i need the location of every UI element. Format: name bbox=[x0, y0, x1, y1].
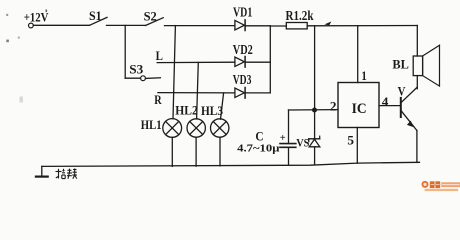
wire diode summing vertical node bbox=[269, 26, 271, 93]
junction arrow on rail bbox=[324, 22, 331, 26]
svg-text:S3: S3 bbox=[129, 63, 143, 77]
IC box IC bbox=[338, 83, 379, 128]
svg-text:+: + bbox=[280, 133, 286, 144]
lamp HL2 bbox=[187, 119, 205, 137]
wire capacitor C top vertical bbox=[288, 110, 290, 143]
wire VD3 cathode to node vertical bbox=[246, 92, 271, 94]
ground symbol chassis bbox=[36, 166, 48, 176]
svg-text:1: 1 bbox=[361, 69, 366, 83]
node junction dot pin2 bbox=[312, 108, 317, 113]
wire zener branch vertical from rail bbox=[314, 26, 316, 139]
capacitor C plates bbox=[280, 144, 296, 148]
transistor V emitter diagonal with arrow bbox=[401, 110, 417, 130]
svg-text:VS: VS bbox=[296, 135, 309, 149]
svg-text:+12V: +12V bbox=[24, 10, 49, 24]
wire lamp HL2 upper vertical bbox=[197, 62, 199, 119]
wire top rail S2 to VD1 bbox=[165, 25, 236, 27]
terminal +12V circle bbox=[29, 23, 34, 28]
wire capacitor C bottom vertical bbox=[288, 148, 290, 165]
wire IC pin2 horizontal bbox=[289, 109, 339, 111]
svg-text:2: 2 bbox=[330, 99, 337, 113]
wire S1 to S3 junction to S2 bbox=[107, 24, 146, 26]
svg-text:HL2: HL2 bbox=[175, 102, 198, 117]
svg-text:IC: IC bbox=[352, 101, 367, 117]
svg-text:R: R bbox=[154, 92, 162, 107]
node R wire row bbox=[158, 92, 235, 94]
svg-text:5: 5 bbox=[347, 134, 354, 148]
svg-text:VD2: VD2 bbox=[233, 42, 253, 57]
switch S3 pivot circle bbox=[141, 76, 146, 81]
svg-text:S2: S2 bbox=[144, 9, 157, 23]
wire lamp HL1 upper vertical bbox=[173, 26, 175, 119]
wire speaker top vertical from rail bbox=[416, 26, 418, 57]
diode VD2 bbox=[235, 57, 245, 68]
svg-text:HL1: HL1 bbox=[141, 117, 162, 132]
bottom rail wire bbox=[42, 162, 420, 166]
wire lamp HL1 lower vertical bbox=[171, 137, 173, 166]
wire IC pin4 to transistor base bbox=[379, 105, 401, 107]
wire IC pin1 vertical bbox=[357, 26, 359, 83]
speaker BL bbox=[413, 45, 439, 86]
svg-text:4: 4 bbox=[382, 95, 389, 109]
svg-text:V: V bbox=[398, 84, 406, 98]
lamp HL1 bbox=[163, 119, 182, 138]
wire VD1 cathode to node vertical bbox=[246, 25, 271, 27]
wire IC pin5 vertical bbox=[356, 128, 358, 164]
wire lamp HL3 lower vertical bbox=[219, 137, 221, 166]
diode VD3 bbox=[235, 88, 245, 99]
svg-text:L: L bbox=[156, 48, 164, 63]
wire lamp HL3 upper vertical bbox=[221, 93, 224, 119]
wire zener to bottom rail bbox=[314, 147, 316, 165]
svg-text:VD1: VD1 bbox=[233, 5, 252, 20]
svg-text:R1.2k: R1.2k bbox=[286, 8, 314, 23]
wire resistor R1 to speaker corner bbox=[307, 25, 417, 27]
stray scan specks bbox=[6, 10, 47, 103]
wire S3 stub bbox=[125, 77, 140, 79]
switch S1 blade bbox=[90, 17, 108, 25]
transistor V base bar bbox=[400, 98, 402, 117]
node L wire row bbox=[157, 61, 235, 63]
wire top rail from terminal to S1 bbox=[33, 24, 89, 26]
watermark logo bbox=[422, 181, 460, 191]
resistor R1 body bbox=[286, 23, 307, 29]
svg-text:S1: S1 bbox=[89, 9, 102, 23]
switch S2 blade bbox=[146, 18, 164, 26]
wire emitter vertical to bottom rail bbox=[416, 131, 418, 163]
wire node to resistor R1 bbox=[270, 25, 286, 27]
zener diode VS bbox=[309, 136, 320, 147]
svg-text:4.7~10μ: 4.7~10μ bbox=[237, 142, 280, 154]
wire lamp HL2 lower vertical bbox=[195, 137, 197, 166]
lamp HL3 bbox=[211, 119, 229, 137]
svg-text:HL3: HL3 bbox=[201, 103, 223, 118]
switch S3 blade bbox=[146, 77, 161, 80]
transistor V collector diagonal bbox=[401, 87, 417, 103]
label ground text 搭铁 drawn strokes bbox=[56, 169, 77, 179]
svg-text:BL: BL bbox=[392, 56, 409, 71]
wire collector vertical to speaker bbox=[416, 76, 418, 89]
diode VD1 bbox=[235, 20, 245, 31]
wire VD2 cathode to node vertical bbox=[246, 61, 271, 63]
svg-text:VD3: VD3 bbox=[233, 72, 252, 87]
wire S3 branch vertical bbox=[124, 25, 126, 78]
